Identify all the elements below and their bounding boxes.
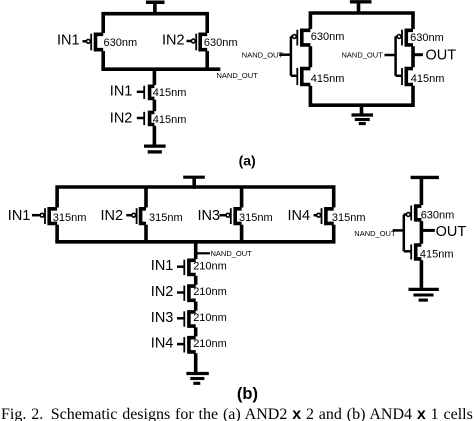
svg-text:IN1: IN1	[8, 208, 31, 224]
svg-text:NAND_OUT: NAND_OUT	[211, 249, 253, 258]
wire gate bus inverter 2 (a)	[394, 37, 397, 76]
ground bar 2 (b) inverter	[413, 293, 433, 296]
power VDD stem (a) inverters	[357, 0, 361, 14]
svg-text:IN4: IN4	[151, 336, 174, 352]
transistor NMOS M10 gate IN2 210nm (b)	[177, 286, 196, 301]
svg-text:OUT: OUT	[436, 224, 467, 240]
wire NMOS M11 to M12 (b)	[194, 327, 198, 336]
svg-text:IN2: IN2	[101, 208, 124, 224]
wire inverter2 output segment (a)	[411, 46, 415, 67]
transistor PMOS U2a 630nm (a) inverter 2	[396, 30, 413, 46]
svg-text:IN3: IN3	[151, 310, 174, 326]
wire pull-up frame top (a) NAND2	[103, 14, 207, 33]
svg-text:NAND_OUT: NAND_OUT	[354, 229, 396, 238]
svg-text:NAND_OUT: NAND_OUT	[217, 71, 259, 80]
svg-text:630nm: 630nm	[104, 37, 138, 49]
wire output rail (b) NAND4	[55, 240, 335, 244]
ground bar 2 (a) NAND2	[148, 150, 162, 153]
transistor PMOS M5 gate IN1 315nm (b)	[32, 208, 57, 224]
power VDD stem (b) NAND4	[192, 176, 196, 189]
svg-text:IN2: IN2	[151, 284, 174, 300]
power VDD bar (a) inverters	[350, 0, 372, 3]
ground bar 1 (a) NAND2	[144, 144, 166, 147]
figure caption	[1, 406, 474, 421]
transistor PMOS M6 gate IN2 315nm (b)	[126, 208, 146, 224]
svg-text:NAND_OUT: NAND_OUT	[342, 51, 384, 60]
power VDD bar (a) NAND2	[146, 0, 165, 4]
svg-text:IN1: IN1	[151, 258, 174, 274]
transistor PMOS U3a 630nm (b) inverter	[404, 206, 422, 221]
transistor NMOS M4 gate IN2 (a) NAND2	[137, 112, 155, 125]
svg-text:630nm: 630nm	[421, 210, 455, 222]
wire left pull-up to output rail (a)	[101, 51, 105, 69]
transistor PMOS M1 gate IN1 (a) NAND2	[83, 34, 104, 51]
wire pull-up right lower (b)	[332, 225, 336, 242]
svg-text:IN1: IN1	[57, 32, 80, 48]
power VDD stem (a) NAND2	[153, 1, 157, 16]
wire input NAND_OUT to inverter 2 (a)	[385, 54, 397, 57]
transistor NMOS M11 gate IN3 210nm (b)	[177, 311, 196, 326]
wire input NAND_OUT to inverter (b)	[393, 229, 405, 232]
svg-text:315nm: 315nm	[53, 212, 87, 224]
wire output node to NMOS stack (a)	[153, 69, 157, 85]
wire pull-up divider 2 upper (b)	[240, 187, 244, 208]
svg-text:210nm: 210nm	[193, 286, 227, 298]
ground bar 1 (a) inverters	[352, 113, 374, 116]
transistor NMOS M9 gate IN1 210nm (b)	[177, 260, 196, 275]
svg-text:IN4: IN4	[288, 208, 311, 224]
wire output node to NMOS stack (b)	[194, 242, 198, 259]
transistor NMOS M3 gate IN1 (a) NAND2	[137, 86, 155, 99]
svg-text:210nm: 210nm	[193, 312, 227, 324]
wire pull-up divider 2 lower (b)	[240, 225, 244, 242]
svg-text:630nm: 630nm	[410, 32, 444, 44]
wire output OUT of inverter (b)	[421, 229, 434, 232]
transistor NMOS U2b 415nm (a) inverter 2	[396, 68, 413, 85]
power VDD bar (b) inverter	[411, 176, 439, 179]
wire pull-up left lower (b)	[55, 225, 59, 242]
transistor PMOS M2 gate IN2 (a) NAND2	[187, 34, 208, 51]
wire NMOS M12 to ground (b)	[194, 353, 198, 372]
wire inverter output segment (b)	[420, 221, 424, 244]
svg-text:415nm: 415nm	[420, 249, 454, 261]
svg-text:415nm: 415nm	[153, 114, 187, 126]
ground stem (a) inverters	[360, 105, 364, 113]
ground bar 2 (a) inverters	[355, 118, 370, 121]
wire pull-up divider 1 upper (b)	[144, 187, 148, 208]
wire inverter1 output segment (a)	[309, 46, 313, 67]
ground bar 3 (b) NAND4	[193, 382, 200, 385]
wire pull-up divider 1 lower (b)	[144, 225, 148, 242]
ground bar 2 (b) NAND4	[190, 377, 204, 380]
transistor NMOS M12 gate IN4 210nm (b)	[177, 337, 196, 352]
svg-text:415nm: 415nm	[153, 87, 187, 99]
wire output OUT of inverter 2 (a)	[413, 53, 423, 56]
wire NMOS M10 to M11 (b)	[194, 302, 198, 311]
wire NMOS U3b to ground (b)	[420, 260, 424, 288]
svg-text:630nm: 630nm	[204, 37, 238, 49]
svg-text:IN2: IN2	[162, 32, 185, 48]
transistor NMOS U3b 415nm (b) inverter	[404, 244, 422, 259]
ground bar 1 (b) inverter	[409, 288, 439, 291]
power VDD bar (b) NAND4	[183, 176, 205, 179]
wire inverter frame bottom (a)	[310, 86, 413, 105]
wire right pull-up to output rail (a)	[205, 51, 209, 69]
svg-text:OUT: OUT	[426, 48, 457, 64]
transistor PMOS U1a 630nm (a) inverter 1	[291, 30, 311, 46]
ground bar 1 (b) NAND4	[186, 372, 208, 375]
svg-text:315nm: 315nm	[149, 212, 183, 224]
wire NMOS M4 to ground (a)	[153, 126, 157, 145]
svg-text:415nm: 415nm	[311, 73, 345, 85]
ground bar 3 (a) inverters	[359, 122, 366, 125]
wire NMOS M3 to NMOS M4 (a)	[153, 100, 157, 111]
ground bar 3 (b) inverter	[419, 299, 428, 302]
svg-text:(a): (a)	[239, 153, 256, 169]
transistor NMOS U1b 415nm (a) inverter 1	[291, 68, 311, 85]
transistor PMOS M7 gate IN3 315nm (b)	[220, 208, 242, 224]
svg-text:210nm: 210nm	[193, 338, 227, 350]
power VDD stem (b) inverter	[420, 176, 424, 205]
svg-text:415nm: 415nm	[411, 73, 445, 85]
svg-text:IN2: IN2	[110, 110, 133, 126]
svg-text:630nm: 630nm	[311, 31, 345, 43]
svg-text:(b): (b)	[237, 385, 258, 403]
wire pull-up frame top (b) NAND4	[57, 187, 334, 208]
wire inverter frame top (a)	[310, 13, 413, 29]
svg-text:IN3: IN3	[198, 208, 221, 224]
wire NMOS M9 to M10 (b)	[194, 276, 198, 285]
svg-text:315nm: 315nm	[332, 212, 366, 224]
wire output rail NAND_OUT (a)	[101, 67, 220, 71]
wire NAND_OUT tick (b)	[196, 252, 210, 254]
svg-text:210nm: 210nm	[193, 260, 227, 272]
svg-text:IN1: IN1	[110, 84, 133, 100]
wire input NAND_OUT to inverter 1 (a)	[279, 53, 291, 56]
svg-text:NAND_OUT: NAND_OUT	[242, 51, 284, 60]
wire gate bus inverter 1 (a)	[290, 37, 293, 76]
transistor PMOS M8 gate IN4 315nm (b)	[314, 208, 334, 224]
svg-text:315nm: 315nm	[239, 212, 273, 224]
wire gate bus inverter (b)	[403, 215, 406, 252]
